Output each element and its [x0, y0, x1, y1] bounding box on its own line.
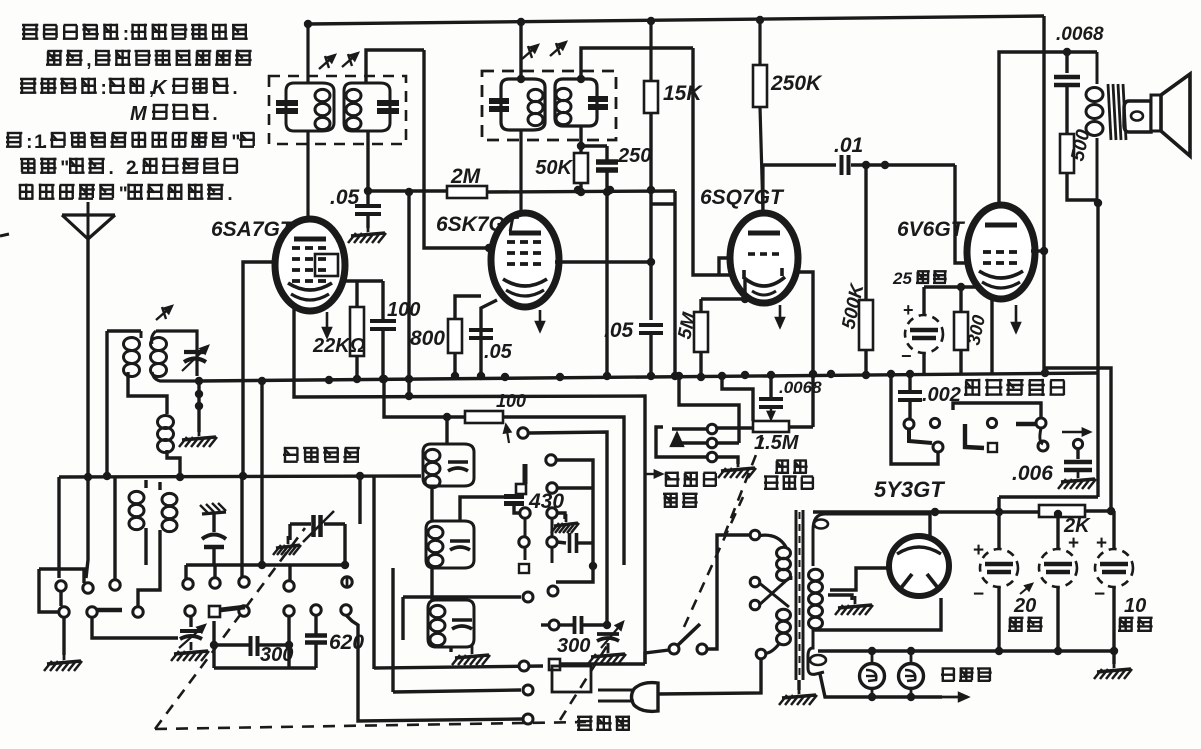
capacitor 620 left	[305, 615, 327, 668]
PT HV winding	[809, 530, 823, 632]
switch S1a contacts row2	[59, 607, 143, 617]
tube 6V6 cathode arrow	[1012, 305, 1020, 332]
wire 6SQ7 plate line	[763, 165, 836, 213]
trimmer IFT1 a	[319, 55, 335, 69]
coil L1 antenna primary	[124, 331, 168, 414]
wire 100 line	[380, 375, 465, 417]
label 300 left	[260, 644, 293, 666]
label 6V6GT	[897, 218, 966, 241]
speaker	[1124, 74, 1190, 156]
switch contact row 597	[403, 592, 533, 602]
resistor 2M	[368, 186, 675, 198]
dashed linkage bottom horizontal	[155, 722, 586, 729]
variable capacitor antenna tuning	[182, 346, 208, 371]
capacitor 620 osc	[557, 533, 593, 553]
label 10uF	[1118, 595, 1153, 631]
wire contact 115 up	[113, 476, 116, 580]
svg-text:.: .	[227, 184, 232, 205]
resistor 15K	[644, 21, 658, 320]
switch S1c lever	[523, 464, 528, 484]
wire 6SA7 osc line	[294, 308, 645, 664]
label .05 cathode	[484, 341, 513, 363]
electrolytic 10uF	[1094, 533, 1133, 605]
note text line 2	[46, 50, 252, 71]
ground S1b varcap	[171, 642, 209, 661]
svg-text:15K: 15K	[663, 82, 703, 105]
label 430	[528, 490, 564, 513]
svg-text:300: 300	[557, 635, 590, 657]
wire S1b mini bus	[214, 666, 316, 669]
switch S1b contacts row1	[183, 577, 352, 591]
svg-text:.: .	[42, 132, 47, 153]
wire antenna mast	[84, 239, 92, 578]
label pilot lamps	[941, 668, 992, 681]
label pickup jack line2	[663, 493, 698, 509]
label .05 grid	[330, 186, 360, 209]
label tone control	[964, 379, 1064, 396]
label 800	[410, 327, 445, 350]
wire rail B	[999, 497, 1098, 512]
label volume line2	[764, 475, 813, 490]
label 15K	[663, 82, 703, 105]
tone switch lever c	[1016, 422, 1036, 426]
svg-text:,: ,	[86, 50, 91, 71]
wire IFT2 primary top	[517, 22, 525, 83]
wire osc tank3 bottom	[449, 647, 452, 652]
trimmer capacitor band2	[290, 511, 345, 564]
label band switch	[283, 448, 360, 464]
svg-text:250: 250	[617, 145, 651, 167]
note text line 7	[19, 184, 233, 205]
wire AVC drop	[405, 192, 413, 400]
osc tank 1 varcap	[448, 462, 468, 471]
capacitor .0068 plate	[1054, 52, 1080, 134]
arrow 100	[504, 425, 510, 443]
wire bus to pot	[718, 372, 753, 421]
tube 5Y3GT	[889, 536, 949, 596]
IFT2 dashed box	[482, 71, 616, 140]
svg-text:.: .	[109, 158, 114, 179]
wire S1b top rail	[186, 561, 349, 580]
wire osc feed a	[372, 476, 375, 669]
wire osc switch out	[560, 662, 645, 665]
svg-text:22KΩ: 22KΩ	[312, 335, 366, 357]
wire 6SK7 grid line	[424, 50, 493, 252]
wire AVC line y476	[59, 472, 421, 481]
note text line 6	[20, 158, 237, 179]
svg-text:.0068: .0068	[779, 378, 822, 397]
label .01	[834, 134, 863, 157]
ground PT core	[779, 680, 817, 705]
wire switch left link	[645, 650, 669, 664]
label 6SA7GT	[211, 218, 295, 241]
wire rail B+	[813, 508, 1039, 516]
svg-text:.: .	[134, 158, 139, 179]
osc tank 3	[428, 600, 474, 647]
trimmer IFT2 b	[550, 42, 566, 56]
ground .05 grid	[348, 224, 386, 243]
IFT1 primary tank	[276, 83, 334, 131]
wire IFT1 primary bottom to 6SA7 plate	[306, 131, 309, 221]
wire AVC end drop	[673, 191, 676, 376]
coil L5 oscillator coupling c	[138, 482, 177, 606]
tank L2 antenna secondary	[151, 331, 200, 381]
label .002	[922, 384, 961, 406]
svg-text::: :	[123, 24, 129, 45]
capacitor .006	[1064, 449, 1092, 470]
wire jack top	[672, 427, 707, 430]
label 300 cathode	[963, 313, 989, 347]
switch S1a contacts row1	[56, 580, 120, 593]
wire S1c row3 out	[558, 486, 593, 489]
wire plug riser	[658, 649, 766, 694]
wire osc tank2 top	[460, 497, 518, 521]
svg-text:.01: .01	[834, 134, 863, 157]
wire osc feed b	[391, 568, 394, 692]
svg-text::: :	[26, 132, 32, 153]
tube 6SK7GT	[491, 213, 559, 307]
svg-text:430: 430	[528, 490, 564, 513]
tube 6SA7 cathode arrow	[323, 312, 331, 337]
IFT2 secondary tank	[555, 79, 608, 126]
dashed linkage power switch	[684, 497, 743, 627]
resistor 22K	[350, 281, 364, 383]
svg-text::: :	[101, 78, 107, 99]
wire lamp bottom arrow	[840, 693, 968, 701]
wire osc tank1 top	[443, 413, 451, 444]
svg-text:+: +	[1068, 533, 1079, 554]
wire bus to jack	[675, 372, 739, 443]
capacitor .05 screen	[639, 186, 663, 380]
svg-text:100: 100	[387, 299, 420, 321]
osc tank 2 padder	[450, 541, 470, 550]
pilot lamp 2	[899, 664, 924, 689]
wire 6SA7 cathode right	[344, 279, 383, 282]
electrolytic 20uF a	[973, 540, 1018, 605]
svg-text:−: −	[973, 584, 984, 605]
tube 6SQ7GT	[730, 213, 798, 303]
wire 6SK7 screen line	[555, 258, 655, 266]
wire main bus	[199, 369, 1098, 384]
wire S1c row2 out	[556, 460, 593, 582]
label 6SK7GT	[436, 213, 520, 236]
antenna	[62, 202, 115, 239]
resistor 2K	[1039, 505, 1115, 518]
svg-text:6SK7GT: 6SK7GT	[436, 213, 520, 236]
label 22KQ	[312, 335, 366, 357]
electrolytic 25uF	[901, 300, 943, 366]
PT center tap	[828, 595, 852, 600]
label .006	[1012, 462, 1053, 485]
tube 6V6GT	[967, 205, 1035, 299]
wire switch to winding	[707, 530, 760, 649]
ground antenna tank	[179, 428, 217, 447]
resistor 800	[448, 319, 462, 380]
wire 6SK7 cathode	[477, 300, 497, 380]
svg-text:−: −	[1094, 584, 1105, 605]
trimmer IFT1 b	[342, 53, 358, 67]
switch S1b lever	[220, 607, 245, 610]
wire 5M top link	[701, 280, 749, 303]
wire trimmer drop	[346, 577, 349, 587]
wire 5Y3 left link	[830, 568, 889, 590]
switch S1c contacts colB	[546, 455, 557, 547]
note text line 5	[6, 132, 255, 153]
dashed linkage pickup	[724, 437, 763, 536]
wire IFT1 secondary top	[366, 50, 424, 83]
wire 5Y3 plate top	[930, 508, 939, 539]
wire 6SQ7 grid stub	[719, 258, 731, 275]
switch S1b contacts row2	[185, 605, 351, 617]
wire antenna primary top	[107, 329, 141, 332]
wire S1c row1 out	[529, 432, 607, 625]
svg-text:.: .	[232, 78, 237, 99]
trimmer padder to ground	[200, 503, 226, 565]
dashed linkage band switch	[155, 528, 305, 729]
label pickup jack line1	[646, 471, 716, 487]
svg-text:.05: .05	[484, 341, 513, 363]
label 5M	[674, 310, 700, 341]
power transformer core	[796, 510, 803, 680]
wire S1b to tank line	[240, 476, 243, 577]
svg-text:+: +	[973, 540, 984, 561]
label 50K	[535, 157, 573, 179]
svg-text:1.5M: 1.5M	[754, 432, 800, 454]
wire PT bottom to 5Y3	[813, 598, 941, 630]
variable capacitor S1b trim	[179, 625, 205, 648]
stray mark left edge	[0, 234, 9, 236]
power switch	[669, 624, 707, 654]
svg-text:2M: 2M	[450, 165, 481, 188]
wire osc bottom row2	[393, 685, 533, 695]
wire 6SA7 grid left	[243, 262, 277, 476]
osc tank 3 padder	[452, 620, 472, 629]
wire 6V6 plate	[999, 48, 1097, 207]
wire left drop to switch	[57, 477, 60, 578]
wire pot right up	[789, 425, 813, 428]
svg-text:50K: 50K	[535, 157, 573, 179]
capacitor .05 grid	[355, 191, 381, 228]
resistor 300 cathode	[954, 287, 968, 373]
label 2K	[1063, 515, 1091, 537]
wire bottom rail	[818, 647, 1118, 655]
label 2M	[450, 165, 481, 188]
pickup jack pin mark	[671, 433, 683, 446]
ground band2 trimmer	[273, 536, 301, 555]
label .0068 volume	[779, 378, 822, 397]
label power plug	[577, 716, 630, 732]
wire 6SQ7 grid feed	[693, 48, 732, 275]
switch contact 620	[548, 586, 558, 596]
label 1.5M	[754, 432, 800, 454]
switch S1a lever	[97, 608, 122, 613]
wire B+ right drop	[1044, 16, 1111, 511]
wire screen stub	[651, 202, 675, 205]
label .05 screen	[604, 319, 634, 342]
coil L4 oscillator coupling b	[158, 415, 181, 477]
note text line 1	[22, 24, 248, 45]
tube 6SQ7 cathode arrow	[776, 305, 784, 327]
wire filter cap 1 lead	[997, 512, 1000, 651]
label 300 osc	[557, 635, 590, 657]
wire pot left	[717, 426, 753, 429]
svg-text:+: +	[903, 300, 914, 320]
wire rail from bus	[258, 377, 266, 565]
tone switch hook	[1040, 428, 1043, 444]
IFT1 secondary tank	[344, 83, 399, 131]
osc tank 1	[423, 444, 474, 488]
trimmer mark antenna	[156, 306, 172, 320]
pilot lamp 1	[860, 664, 885, 689]
wire osc feed d	[356, 472, 364, 524]
ground bottom right	[1094, 651, 1132, 679]
svg-text:6SQ7GT: 6SQ7GT	[700, 186, 785, 209]
PT primary cross	[750, 577, 789, 610]
wire 6V6 grid feed	[955, 165, 972, 263]
label 5Y3GT	[874, 477, 945, 502]
wire osc tank2 bottom	[430, 568, 433, 600]
svg-text:.006: .006	[1012, 462, 1053, 485]
label 500 field	[1067, 127, 1094, 163]
resistor 5M	[694, 299, 708, 381]
svg-text:6V6GT: 6V6GT	[897, 218, 966, 241]
coil L3 oscillator coupling a	[129, 480, 146, 565]
capacitor 250 IF	[596, 146, 618, 380]
ground osc trim	[588, 643, 626, 664]
IFT1 dashed box	[269, 76, 406, 144]
note text line 3	[20, 77, 238, 99]
label 500K	[838, 281, 868, 331]
svg-text:+: +	[1096, 533, 1107, 554]
label 20uF	[1008, 584, 1043, 631]
svg-text:": "	[231, 132, 240, 153]
svg-text:.05: .05	[604, 319, 634, 342]
power plug	[598, 683, 658, 712]
capacitor 300 left	[214, 636, 289, 656]
wire S1a row2 link	[92, 617, 178, 638]
capacitor .002	[898, 374, 922, 418]
wire osc feed c	[346, 615, 533, 724]
wire S1a to ground	[62, 617, 65, 655]
wire diode out	[797, 272, 817, 427]
wire IFT2 secondary bottom	[577, 126, 607, 153]
dashed linkage oscillator	[560, 638, 612, 720]
wire 6SK7 plate	[519, 131, 522, 214]
switch S1c contacts colA	[516, 428, 530, 573]
ground .006	[1058, 470, 1096, 489]
note text line 4	[130, 103, 218, 125]
label .0068 plate	[1056, 24, 1104, 45]
pickup jack contacts	[707, 424, 717, 462]
label 250K	[770, 72, 823, 95]
capacitor 300 osc	[541, 616, 611, 634]
wire osc row 597 stub	[401, 597, 404, 640]
ground PT center tap	[835, 596, 873, 615]
wire S1a frame	[39, 569, 84, 612]
variable capacitor osc trim	[597, 622, 623, 648]
wire S1c stubs	[525, 518, 552, 563]
wire cathode branch	[455, 296, 481, 319]
wire IFT1 secondary bottom	[364, 131, 372, 195]
wire IFT1 primary top	[304, 20, 312, 83]
wire OT return	[1094, 199, 1102, 497]
label 100 cap	[387, 299, 420, 321]
svg-text:K: K	[152, 77, 168, 99]
trimmer IFT2 a	[522, 45, 538, 59]
svg-text:6SA7GT: 6SA7GT	[211, 218, 295, 241]
svg-text:.: .	[212, 104, 217, 125]
pickup jack bracket	[656, 427, 663, 457]
resistor 500K	[859, 165, 873, 379]
capacitor .01	[842, 155, 956, 175]
OT core	[1108, 84, 1126, 140]
svg-text:.0068: .0068	[1056, 24, 1104, 45]
label 6SQ7GT	[700, 186, 785, 209]
wire S1b col down	[210, 616, 293, 668]
wire lamp leads	[868, 651, 915, 701]
wire tone feed	[891, 374, 938, 464]
svg-text:": "	[60, 158, 69, 179]
tone arrow	[1062, 429, 1090, 436]
wire 6V6 cathode	[924, 283, 978, 373]
capacitor 100	[370, 281, 396, 383]
wire osc tank1 bottom	[430, 486, 433, 521]
wire varcap	[189, 615, 192, 627]
wire 6V6 screen	[1031, 247, 1048, 255]
resistor 50K	[574, 153, 588, 196]
svg-text:": "	[119, 184, 128, 205]
svg-text:M: M	[130, 103, 148, 125]
tone switch frame	[953, 403, 1041, 417]
label 100 res	[496, 391, 526, 411]
ground S1a	[44, 652, 82, 671]
IFT2 primary tank	[489, 79, 545, 130]
electrolytic 20uF b	[1039, 533, 1079, 587]
svg-text:100: 100	[496, 391, 526, 411]
svg-text:250K: 250K	[770, 72, 823, 95]
label volume line1	[775, 459, 808, 474]
ground osc	[452, 646, 490, 665]
svg-text:.05: .05	[330, 186, 360, 209]
wire tank to ground	[195, 377, 203, 432]
tube 6SA7GT	[275, 219, 345, 311]
wire osc bottom row1	[374, 659, 560, 671]
svg-text:300: 300	[260, 644, 293, 666]
resistor 100 padding	[465, 411, 624, 570]
ground S1c	[551, 514, 579, 533]
wire filter cap 2 lead	[1056, 517, 1059, 651]
ground pickup jack	[718, 459, 756, 478]
wire filter cap 3 lead	[1112, 511, 1115, 651]
wire antenna primary drop	[103, 331, 111, 480]
wire S1c gnd stub	[557, 513, 565, 519]
potentiometer 1.5M	[753, 421, 789, 432]
wire B+ top bus	[308, 16, 1044, 26]
svg-text:10: 10	[1124, 595, 1146, 617]
wire 6V6 beam plate	[990, 300, 993, 373]
tone switch lever b	[965, 424, 984, 448]
OT primary coil	[1086, 52, 1103, 200]
wire jack mid	[676, 441, 739, 444]
svg-text:5Y3GT: 5Y3GT	[874, 477, 945, 502]
PT filament winding	[808, 632, 840, 697]
wire IFT2 secondary top	[577, 48, 693, 83]
svg-text:800: 800	[410, 327, 445, 350]
capacitor .0068 volume	[759, 375, 783, 419]
tone switch contacts	[904, 418, 1083, 452]
osc tank 2	[426, 521, 474, 568]
wire jack bottom to ground	[663, 457, 738, 464]
